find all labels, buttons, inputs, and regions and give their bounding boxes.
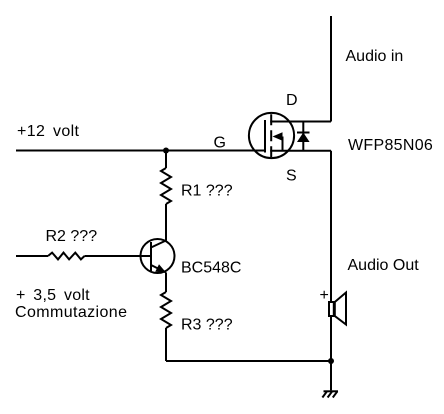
svg-text:R2 ???: R2 ??? bbox=[46, 228, 98, 245]
svg-text:+12 volt: +12 volt bbox=[17, 123, 79, 140]
svg-text:Commutazione: Commutazione bbox=[15, 304, 127, 321]
svg-text:BC548C: BC548C bbox=[181, 260, 241, 277]
svg-text:R1 ???: R1 ??? bbox=[181, 183, 233, 200]
svg-text:R3 ???: R3 ??? bbox=[181, 317, 233, 334]
svg-text:+: + bbox=[320, 287, 329, 304]
svg-text:WFP85N06: WFP85N06 bbox=[348, 137, 433, 154]
svg-text:G: G bbox=[214, 135, 226, 152]
svg-text:Audio in: Audio in bbox=[346, 48, 404, 65]
svg-text:+ 3,5 volt: + 3,5 volt bbox=[16, 287, 90, 304]
svg-text:S: S bbox=[286, 168, 297, 185]
svg-text:Audio Out: Audio Out bbox=[348, 257, 420, 274]
svg-text:D: D bbox=[286, 92, 298, 109]
